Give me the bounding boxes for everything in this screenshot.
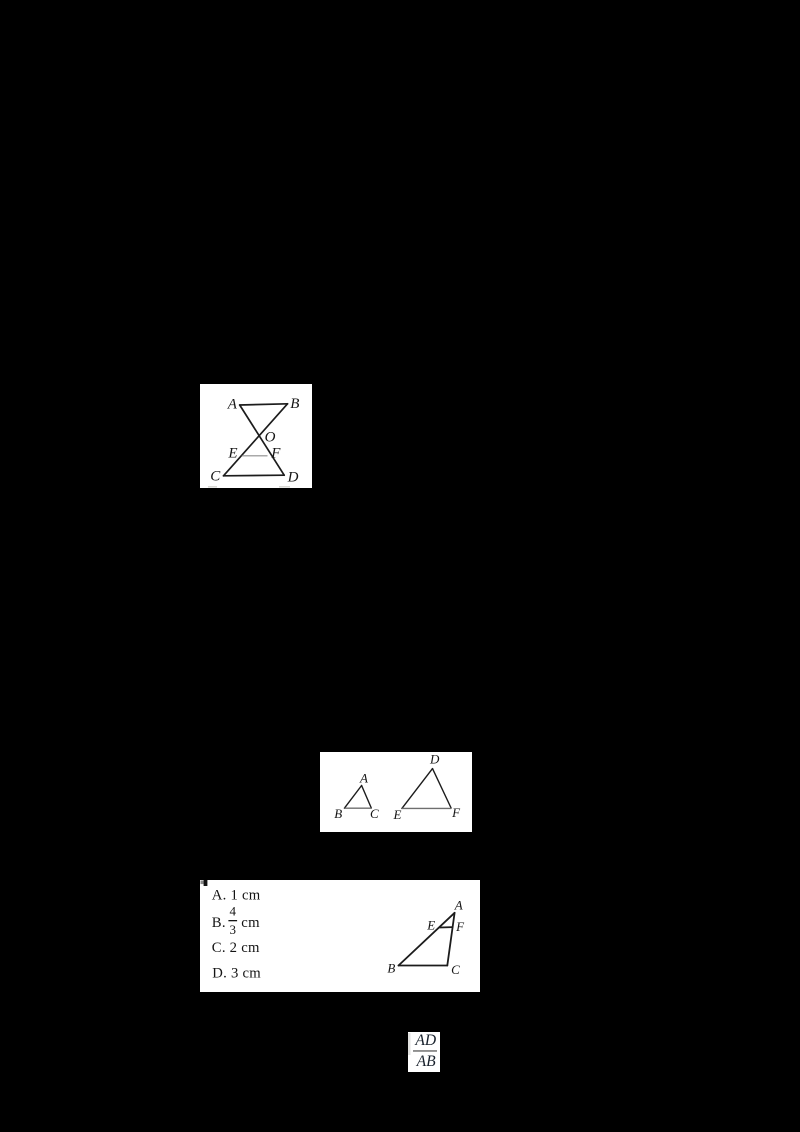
svg-text:B: B [290,396,299,412]
svg-text:A: A [454,897,463,912]
svg-text:E: E [227,446,237,462]
svg-text:F: F [451,805,461,820]
svg-text:B: B [387,961,395,976]
svg-text:B.: B. [212,915,226,931]
svg-text:A: A [359,770,368,785]
svg-text:B: B [334,806,342,821]
svg-text:C: C [210,469,221,485]
svg-text:4: 4 [230,903,237,918]
svg-text:A. 1 cm: A. 1 cm [212,888,261,904]
svg-text:D: D [429,752,440,767]
svg-text:O: O [265,430,276,446]
svg-text:A: A [227,397,238,413]
svg-text:C: C [370,806,379,821]
svg-text:C. 2 cm: C. 2 cm [212,940,260,956]
svg-text:E: E [393,807,402,822]
svg-text:C: C [451,962,460,977]
svg-text:D: D [287,469,299,485]
svg-text:F: F [270,445,281,461]
svg-text:3: 3 [230,922,237,937]
svg-text:cm: cm [241,915,260,931]
svg-text:AD: AD [414,1032,437,1049]
svg-text:E: E [426,918,435,933]
svg-text:AB: AB [416,1053,437,1070]
svg-text:D. 3 cm: D. 3 cm [212,966,261,982]
svg-text:F: F [455,919,465,934]
